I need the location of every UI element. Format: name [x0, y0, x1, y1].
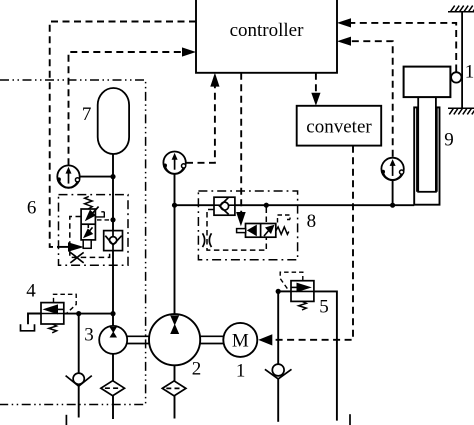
valve 4 pilot dashes — [54, 294, 77, 313]
roller guide circle — [451, 72, 461, 82]
svg-text:7: 7 — [82, 104, 92, 125]
filter 1 — [101, 381, 125, 396]
wire: valve 5 outlet to tank drop — [314, 291, 337, 420]
svg-text:5: 5 — [319, 297, 329, 318]
wire: signal controller to valve 8 (dashed) — [240, 73, 242, 212]
wire: pump 2 riser — [174, 174, 176, 314]
sensor S2 (pressure transducer at pump 2) — [163, 152, 186, 174]
guide wall line — [461, 12, 463, 109]
cylinder 9 barrel — [414, 107, 439, 204]
valve 4 tank symbol — [21, 324, 35, 331]
wire: signal sensor S2 to controller (dashed) — [186, 87, 215, 163]
wire: motor branch drop — [277, 291, 279, 364]
left check valve — [66, 373, 92, 386]
svg-text:M: M — [232, 330, 249, 351]
wire: sensor S1 to accumulator line — [80, 176, 114, 178]
valve 5 (relief) — [291, 281, 314, 302]
wire: signal position sensor to controller (dashed) — [351, 23, 456, 72]
valve 6 spring (top) — [85, 196, 93, 209]
valve 6 pilot dashes to node — [97, 219, 111, 221]
valve 6 pilot-check valve square — [104, 231, 123, 251]
valve 8 pilot dashed riser — [265, 208, 267, 251]
wire: pump3 to filter1 — [112, 354, 114, 381]
valve 8 flow arrow (right position) — [264, 225, 275, 236]
wire: right check valve tail — [277, 379, 279, 422]
valve 8 flow arrow (left position) — [247, 225, 257, 237]
valve 8 throttle — [203, 233, 212, 247]
valve 8 check valve square — [214, 197, 235, 215]
load mass block — [404, 67, 451, 98]
wire: signal sensor S3 to controller (dashed) — [351, 41, 393, 157]
svg-text:controller: controller — [230, 20, 305, 41]
bottom tick left — [65, 415, 67, 425]
wire: valve 4 outlet line — [64, 313, 113, 315]
enclosure boundary (left subsystem, dash-dot-dot) — [0, 80, 146, 405]
wall top anchor hatching — [448, 6, 474, 12]
valve 8 pilot hook — [278, 215, 291, 223]
valve 6 pilot hook — [95, 212, 104, 217]
arrowhead onto motor M — [258, 334, 272, 345]
svg-text:3: 3 — [84, 325, 94, 346]
motor M1 — [223, 323, 257, 357]
valve 6 throttle cross — [70, 252, 83, 262]
node accumulator/sensor junction — [110, 174, 115, 179]
wire: left check valve line upper — [78, 314, 80, 374]
arrowhead into controller left — [182, 47, 196, 56]
wire: solid lead into valve 6 solenoid arrow — [57, 246, 69, 248]
valve 6 flow arrow (upper position) — [85, 207, 99, 222]
valve 4 tank line — [28, 314, 41, 325]
valve 4 spring — [49, 324, 57, 333]
valve 8 inner dashed box — [207, 210, 266, 251]
filter 2 — [162, 381, 186, 396]
wire: valve 5 inlet — [278, 290, 291, 292]
svg-text:conveter: conveter — [306, 116, 372, 137]
solenoid arrow of valve 6 — [68, 242, 84, 252]
converter box — [297, 106, 382, 146]
node valve8 pilot junction — [264, 203, 269, 208]
pump 3 — [99, 326, 127, 354]
valve 8 dash-dot box — [198, 191, 297, 260]
wire: pump2 to filter2 — [174, 365, 176, 381]
pump 2 — [149, 314, 200, 365]
cylinder 9 piston rod — [418, 96, 436, 192]
wire: accumulator line upper — [112, 154, 114, 231]
wire: signal converter to motor M (dashed) — [273, 146, 354, 340]
arrowhead into converter top — [311, 93, 320, 106]
shaft coupling pump2-motor — [200, 336, 223, 343]
wire: signal sensor S1 to controller (dashed) — [69, 52, 182, 165]
bottom tick right — [349, 414, 351, 425]
arrowhead onto valve 8 solenoid — [236, 212, 246, 226]
wire: left check valve line lower — [78, 386, 80, 417]
node sensor S3 junction — [390, 203, 395, 208]
wire: filter2 tail — [174, 396, 176, 419]
accumulator 7 — [98, 88, 129, 154]
svg-text:2: 2 — [192, 359, 202, 380]
node check valve branch — [76, 311, 81, 316]
wall bottom anchor hatching — [448, 108, 474, 114]
valve 6 proportional valve body — [81, 209, 95, 240]
valve 5 spring — [299, 301, 307, 310]
wire: main pressure line to cylinder — [175, 204, 415, 206]
wire: signal controller to valve 6 (dashed) — [50, 22, 196, 247]
valve 6 solenoid box — [83, 240, 91, 248]
svg-text:6: 6 — [27, 198, 37, 219]
wire: accumulator line lower — [112, 251, 114, 326]
shaft coupling pump3-pump2 — [127, 336, 149, 343]
valve 4 (relief) — [41, 303, 64, 324]
valve 5 pilot dashes — [280, 272, 303, 290]
svg-text:1: 1 — [236, 361, 246, 382]
controller U-CTRL — [196, 0, 337, 73]
arrowhead into controller bottom — [210, 73, 219, 87]
valve 6 flow arrow (lower position) — [83, 225, 93, 238]
valve 6 dash-dot box — [59, 195, 129, 266]
arrowhead into controller right (upper) — [337, 18, 351, 27]
svg-text:9: 9 — [444, 130, 454, 151]
svg-text:8: 8 — [307, 211, 317, 232]
wire: sensor S3 drop line — [392, 180, 394, 205]
sensor S3 (pressure transducer at cylinder) — [381, 158, 404, 180]
valve 8 solenoid box — [237, 229, 246, 233]
node pump3 riser junction — [110, 311, 115, 316]
node valve6 pilot junction — [110, 217, 115, 222]
wire: filter1 tail — [112, 396, 114, 419]
right check valve — [265, 364, 292, 379]
valve 8 spring (right) — [276, 227, 289, 234]
arrowhead into controller right (lower) — [337, 37, 351, 46]
valve 6 inner dashed box — [70, 217, 110, 258]
svg-text:1: 1 — [465, 62, 474, 83]
sensor S1 (pressure transducer at accumulator) — [57, 165, 80, 187]
valve 8 proportional valve body — [246, 224, 276, 238]
wire: signal controller to converter (dashed) — [315, 73, 317, 94]
node valve 5 junction — [276, 289, 281, 294]
svg-text:4: 4 — [26, 281, 36, 302]
node main/pump2 junction — [172, 203, 177, 208]
